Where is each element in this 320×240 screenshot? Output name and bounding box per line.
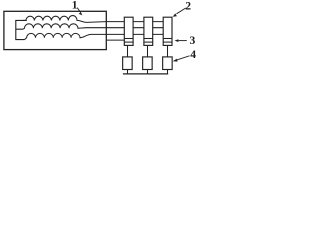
resistor 3 xyxy=(163,57,173,70)
wire: conductor 1 to absorber blocks xyxy=(106,21,163,23)
leader arrow for label 1 xyxy=(77,8,82,16)
leader arrow for label 4 xyxy=(173,56,190,62)
label 2 xyxy=(185,0,191,13)
label 3 xyxy=(190,34,196,47)
resistor 2 xyxy=(143,57,153,70)
svg-text:4: 4 xyxy=(190,48,196,61)
ground bus xyxy=(123,73,168,75)
wire: conductor 2 to absorber blocks xyxy=(106,27,163,29)
left end bracket (common terminal) xyxy=(16,20,27,39)
winding 3 (bottom coil) xyxy=(25,33,107,39)
leader arrow for label 2 xyxy=(173,8,186,17)
lead: block 2 to resistor 2 xyxy=(147,45,149,57)
resistor 1 xyxy=(123,57,132,70)
svg-text:3: 3 xyxy=(190,34,196,47)
shield box (cable screen) xyxy=(4,11,106,49)
label 4 xyxy=(190,48,196,61)
absorber block 3 xyxy=(163,17,172,45)
stub: resistor 1 to bus xyxy=(127,70,129,74)
stub: resistor 3 to bus xyxy=(167,70,169,74)
svg-text:1: 1 xyxy=(72,0,78,12)
svg-text:2: 2 xyxy=(185,0,191,13)
lead: block 3 to resistor 3 xyxy=(167,45,169,57)
stub: resistor 2 to bus xyxy=(147,70,149,74)
wire: conductor 3 to absorber blocks xyxy=(106,33,163,35)
absorber block 2 xyxy=(144,17,153,45)
winding 1 (top coil) xyxy=(23,16,106,23)
wire: screen tap to first block xyxy=(106,39,128,41)
lead: block 1 to resistor 1 xyxy=(127,45,129,57)
absorber block 1 xyxy=(124,17,133,45)
leader arrow for label 3 xyxy=(175,39,187,42)
winding 2 (middle coil) xyxy=(23,24,106,29)
label 1 xyxy=(72,0,78,12)
